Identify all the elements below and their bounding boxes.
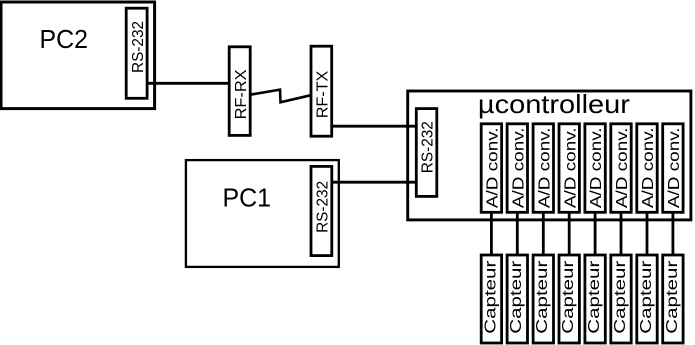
wire radio link RF-RX to RF-TX (zigzag) <box>250 90 311 103</box>
svg-text:Capteur: Capteur <box>482 260 499 334</box>
wire PC1 RS-232 to microcontroller RS-232 <box>332 181 417 184</box>
svg-text:A/D conv.: A/D conv. <box>640 127 657 208</box>
wire A/D converter 2 to Capteur 2 <box>516 212 519 255</box>
block Capteur 4 <box>559 255 579 343</box>
svg-text:Capteur: Capteur <box>586 260 603 334</box>
block Capteur 3 <box>533 255 553 343</box>
svg-text:Capteur: Capteur <box>612 260 629 334</box>
block Capteur 7 <box>637 255 657 343</box>
block A/D converter 7 <box>637 124 657 213</box>
block Capteur 2 <box>507 255 527 343</box>
svg-text:A/D conv.: A/D conv. <box>510 127 527 208</box>
wire RF-TX to microcontroller RS-232 <box>332 125 417 128</box>
svg-text:RF-RX: RF-RX <box>233 69 250 119</box>
port RS-232 of PC2 <box>126 8 147 98</box>
svg-text:PC2: PC2 <box>39 26 88 54</box>
block Capteur 1 <box>481 255 501 343</box>
svg-text:A/D conv.: A/D conv. <box>536 127 553 208</box>
svg-text:A/D conv.: A/D conv. <box>588 127 605 208</box>
block PC1 <box>186 160 339 267</box>
port RS-232 of PC1 <box>311 166 332 255</box>
block Capteur 8 <box>663 255 683 343</box>
svg-text:Capteur: Capteur <box>508 260 525 334</box>
block PC2 <box>1 2 155 109</box>
svg-text:RF-TX: RF-TX <box>314 70 331 118</box>
block A/D converter 6 <box>611 124 631 213</box>
svg-text:RS-232: RS-232 <box>420 121 437 173</box>
block microcontroller <box>408 91 691 220</box>
svg-text:PC1: PC1 <box>223 184 272 212</box>
wire A/D converter 4 to Capteur 4 <box>568 212 571 255</box>
svg-text:A/D conv.: A/D conv. <box>485 127 502 208</box>
block A/D converter 8 <box>663 124 683 213</box>
wire A/D converter 7 to Capteur 7 <box>646 212 649 255</box>
block RF-TX <box>311 46 332 136</box>
svg-text:RS-232: RS-232 <box>130 21 147 73</box>
wire A/D converter 1 to Capteur 1 <box>490 212 493 255</box>
block Capteur 5 <box>585 255 605 343</box>
svg-text:Capteur: Capteur <box>638 260 655 334</box>
block RF-RX <box>229 47 250 136</box>
block A/D converter 3 <box>533 124 553 213</box>
svg-text:RS-232: RS-232 <box>315 181 332 233</box>
svg-text:Capteur: Capteur <box>560 260 577 334</box>
svg-text:µcontrolleur: µcontrolleur <box>478 89 630 119</box>
wire PC2 RS-232 to RF-RX <box>147 82 229 85</box>
block Capteur 6 <box>611 255 631 343</box>
svg-text:Capteur: Capteur <box>534 260 551 334</box>
svg-text:A/D conv.: A/D conv. <box>614 127 631 208</box>
wire A/D converter 5 to Capteur 5 <box>594 212 597 255</box>
block A/D converter 4 <box>559 124 579 213</box>
port RS-232 of microcontroller <box>416 109 437 197</box>
svg-text:A/D conv.: A/D conv. <box>562 127 579 208</box>
wire A/D converter 6 to Capteur 6 <box>620 212 623 255</box>
svg-text:A/D conv.: A/D conv. <box>666 127 683 208</box>
block A/D converter 1 <box>481 124 501 213</box>
svg-text:Capteur: Capteur <box>664 260 681 334</box>
wire A/D converter 8 to Capteur 8 <box>672 212 675 255</box>
block A/D converter 2 <box>507 124 527 213</box>
block A/D converter 5 <box>585 124 605 213</box>
wire A/D converter 3 to Capteur 3 <box>542 212 545 255</box>
